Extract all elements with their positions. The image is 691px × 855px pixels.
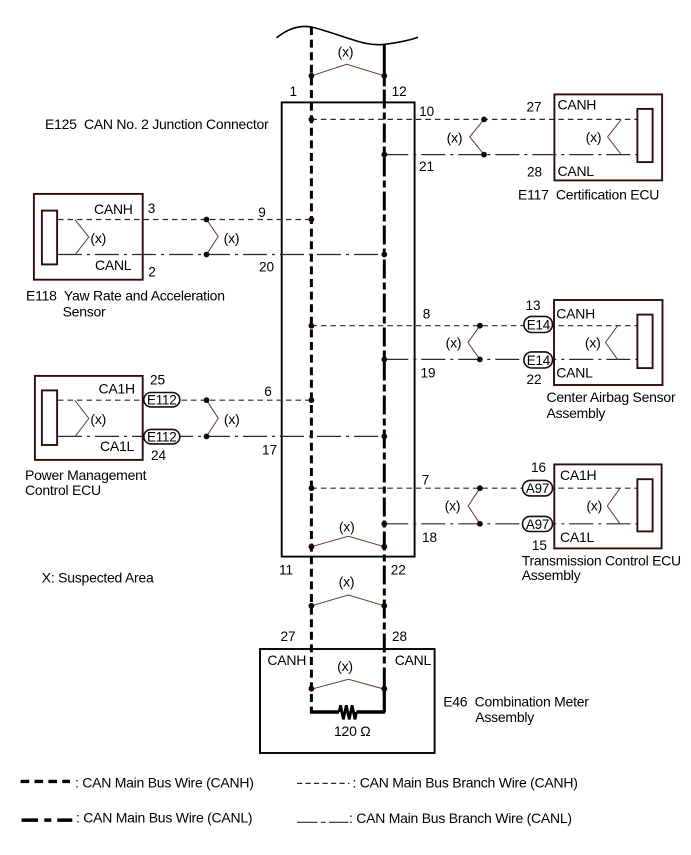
- E118 Yaw Rate sensor box: [34, 194, 143, 280]
- suspected area marker (x) below junction box: [309, 574, 388, 609]
- svg-text:13: 13: [525, 298, 540, 313]
- svg-text:(x): (x): [445, 498, 461, 514]
- svg-text:9: 9: [258, 205, 266, 220]
- svg-text:CANL: CANL: [395, 652, 432, 668]
- svg-text:E14: E14: [527, 353, 551, 368]
- svg-text:(x): (x): [224, 230, 240, 246]
- svg-text:CANL: CANL: [558, 163, 595, 179]
- junction dot wire 8 on CANH: [309, 323, 315, 329]
- suspected area marker (x) on Center Airbag branch with junction dots: [446, 323, 483, 362]
- svg-text:CANH: CANH: [556, 306, 595, 322]
- branch wire 6: Power Management CA1H (thin dashed): [58, 399, 311, 401]
- suspected area marker (x) on E117 branch with junction dots: [447, 117, 487, 158]
- junction dot wire 10 on CANH: [309, 117, 315, 123]
- svg-text:20: 20: [259, 259, 275, 274]
- CANH bus dashed segment into resistor (E46): [310, 694, 313, 712]
- svg-text:CANL: CANL: [95, 257, 132, 273]
- svg-text:CANH: CANH: [267, 652, 306, 668]
- svg-text:(x): (x): [339, 519, 355, 535]
- svg-text:CA1L: CA1L: [560, 529, 594, 545]
- svg-text:18: 18: [422, 530, 437, 545]
- svg-text:11: 11: [279, 563, 293, 578]
- svg-text:(x): (x): [446, 335, 462, 351]
- svg-text:21: 21: [419, 159, 434, 174]
- CANL bus solid segment into resistor (E46): [383, 689, 386, 712]
- E46 Combination Meter box: [260, 649, 435, 753]
- Power Management Control ECU box: [35, 376, 143, 460]
- svg-text:(x): (x): [90, 411, 106, 427]
- legend swatch: CAN main bus branch wire CANH (thin dashed): [297, 782, 350, 784]
- svg-text:: CAN Main Bus Branch Wire (CA: : CAN Main Bus Branch Wire (CANL): [349, 810, 572, 826]
- branch wire 17: Power Management CA1L (thin dash-dot): [58, 435, 384, 437]
- legend swatch: CAN main bus branch wire CANL (thin dash-dot): [297, 821, 349, 823]
- svg-text:(x): (x): [224, 411, 240, 427]
- svg-text:16: 16: [531, 460, 546, 475]
- suspected area marker (x) at junction box bottom: [309, 519, 388, 550]
- svg-text:27: 27: [526, 100, 541, 115]
- svg-text:(x): (x): [447, 129, 463, 145]
- Transmission connector pin rect: [637, 479, 652, 531]
- branch wire 21: CANL to E117 (thin dash-dot): [384, 154, 637, 156]
- suspected area marker (x) inside Power Management box: [75, 401, 106, 437]
- svg-text:Sensor: Sensor: [63, 303, 106, 319]
- suspected area marker (x) on Transmission branch with junction dots: [445, 485, 483, 526]
- svg-text:: CAN Main Bus Wire (CANH): : CAN Main Bus Wire (CANH): [75, 774, 254, 790]
- branch wire 9: E118 CANH (thin dashed): [58, 219, 311, 221]
- connector code oval E112 (CA1L): [144, 429, 180, 444]
- svg-text:22: 22: [391, 563, 406, 578]
- Power Management connector pin rect: [42, 390, 57, 445]
- svg-text:E125 CAN No. 2 Junction Conne: E125 CAN No. 2 Junction Connector: [45, 116, 269, 132]
- branch wire 10: CANH to E117 (thin dashed): [311, 118, 637, 120]
- svg-text:1: 1: [290, 84, 298, 99]
- svg-text:Assembly: Assembly: [522, 567, 581, 583]
- svg-text:E46 Combination Meter: E46 Combination Meter: [443, 694, 589, 710]
- branch wire 8: CANH to Center Airbag (thin dashed): [311, 325, 637, 327]
- svg-text:28: 28: [392, 629, 407, 644]
- junction connector E125 box: [282, 102, 415, 556]
- svg-text:2: 2: [148, 264, 156, 279]
- svg-text:10: 10: [419, 104, 435, 119]
- svg-text:(x): (x): [586, 129, 602, 145]
- svg-text:CANL: CANL: [556, 364, 593, 380]
- connector code oval E14 (CANL): [524, 352, 553, 368]
- svg-text:E117 Certification ECU: E117 Certification ECU: [518, 187, 659, 203]
- connector code oval E112 (CA1H): [144, 392, 180, 407]
- svg-text:X: Suspected Area: X: Suspected Area: [42, 570, 154, 586]
- svg-text:: CAN Main Bus Wire (CANL): : CAN Main Bus Wire (CANL): [76, 810, 252, 826]
- connector code oval A97 (CA1H): [523, 480, 553, 496]
- suspected area marker (x) inside Center Airbag box: [585, 326, 618, 360]
- svg-text:17: 17: [262, 442, 277, 457]
- junction dot wire 18 on CANL: [381, 521, 387, 527]
- svg-text:(x): (x): [586, 498, 602, 514]
- svg-text:25: 25: [150, 373, 165, 388]
- svg-text:CA1H: CA1H: [99, 381, 135, 397]
- svg-text:120 Ω: 120 Ω: [334, 723, 370, 739]
- legend swatch: CAN main bus wire CANH (bold dashed): [21, 780, 70, 783]
- suspected area marker (x) inside E118: [75, 220, 106, 255]
- junction dot wire 19 on CANL: [381, 357, 387, 363]
- svg-text:(x): (x): [338, 44, 354, 60]
- svg-text:12: 12: [392, 84, 407, 99]
- svg-text:Control ECU: Control ECU: [25, 482, 101, 498]
- legend swatch: CAN main bus wire CANL (bold dash-dot): [22, 818, 73, 822]
- Transmission Control ECU box: [554, 464, 661, 548]
- Center Airbag Sensor box: [554, 300, 663, 385]
- connector code oval A97 (CA1L): [523, 516, 553, 532]
- svg-text:(x): (x): [90, 230, 106, 246]
- branch wire 18: CANL to Transmission ECU (thin dash-dot): [384, 523, 637, 525]
- svg-text:(x): (x): [337, 658, 353, 674]
- svg-text:E112: E112: [147, 429, 176, 444]
- junction dot wire 6 on CANH: [309, 397, 315, 403]
- E117 connector pin rect: [637, 109, 652, 162]
- svg-text:: CAN Main Bus Branch Wire (CA: : CAN Main Bus Branch Wire (CANH): [353, 774, 578, 790]
- branch wire 19: CANL to Center Airbag (thin dash-dot): [384, 358, 637, 360]
- svg-text:7: 7: [422, 473, 430, 488]
- svg-text:A97: A97: [526, 481, 549, 496]
- svg-text:6: 6: [264, 384, 272, 399]
- junction dot wire 21 on CANL: [381, 152, 387, 158]
- svg-text:8: 8: [423, 307, 431, 322]
- CANL main bus wire top solid segment: [383, 45, 386, 87]
- svg-text:E118 Yaw Rate and Acceleratio: E118 Yaw Rate and Acceleration: [26, 287, 225, 303]
- junction dot wire 7 on CANH: [309, 485, 315, 491]
- CANH main bus wire (bold dashed vertical): [310, 27, 313, 694]
- junction dot wire 17 on CANL: [381, 434, 387, 440]
- suspected area marker (x) at top between buses: [309, 44, 388, 79]
- Center Airbag connector pin rect: [637, 315, 652, 369]
- suspected area marker (x) on E118 branch with junction dots: [204, 217, 240, 258]
- terminating resistor 120 ohm: [310, 705, 385, 739]
- E117 Certification ECU box: [554, 94, 662, 180]
- svg-text:E112: E112: [147, 392, 176, 407]
- svg-text:19: 19: [420, 366, 435, 381]
- junction dot wire 20 on CANL: [381, 252, 387, 258]
- branch wire 7: CANH to Transmission ECU (thin dashed): [311, 487, 637, 489]
- svg-text:27: 27: [280, 629, 295, 644]
- svg-text:22: 22: [526, 372, 541, 387]
- svg-text:24: 24: [151, 448, 167, 463]
- branch wire 20: E118 CANL (thin dash-dot): [58, 254, 384, 256]
- wire break wave at top: [277, 26, 419, 44]
- svg-text:Assembly: Assembly: [547, 405, 606, 421]
- svg-text:Power Management: Power Management: [25, 467, 147, 483]
- svg-text:Assembly: Assembly: [475, 709, 534, 725]
- svg-text:Center Airbag Sensor: Center Airbag Sensor: [547, 389, 676, 405]
- svg-text:15: 15: [532, 538, 547, 553]
- E118 connector pin rect: [42, 211, 57, 265]
- suspected area marker (x) inside E46: [309, 658, 388, 692]
- svg-text:3: 3: [148, 201, 156, 216]
- svg-text:CA1H: CA1H: [560, 467, 596, 483]
- svg-text:CANH: CANH: [558, 96, 597, 112]
- connector code oval E14 (CANH): [524, 316, 553, 332]
- junction dot wire 9 on CANH: [309, 217, 315, 223]
- svg-text:A97: A97: [526, 517, 549, 532]
- suspected area marker (x) inside Transmission box: [586, 488, 620, 524]
- svg-text:E14: E14: [527, 317, 551, 332]
- suspected area marker (x) inside E117: [586, 119, 622, 154]
- svg-text:(x): (x): [585, 335, 601, 351]
- CANL main bus wire (bold dash-dot vertical): [383, 90, 386, 695]
- svg-text:CA1L: CA1L: [100, 438, 134, 454]
- suspected area marker (x) on Power Management branch with junction dots: [204, 397, 240, 439]
- svg-text:28: 28: [527, 164, 542, 179]
- svg-text:CANH: CANH: [94, 201, 133, 217]
- svg-text:(x): (x): [339, 574, 355, 590]
